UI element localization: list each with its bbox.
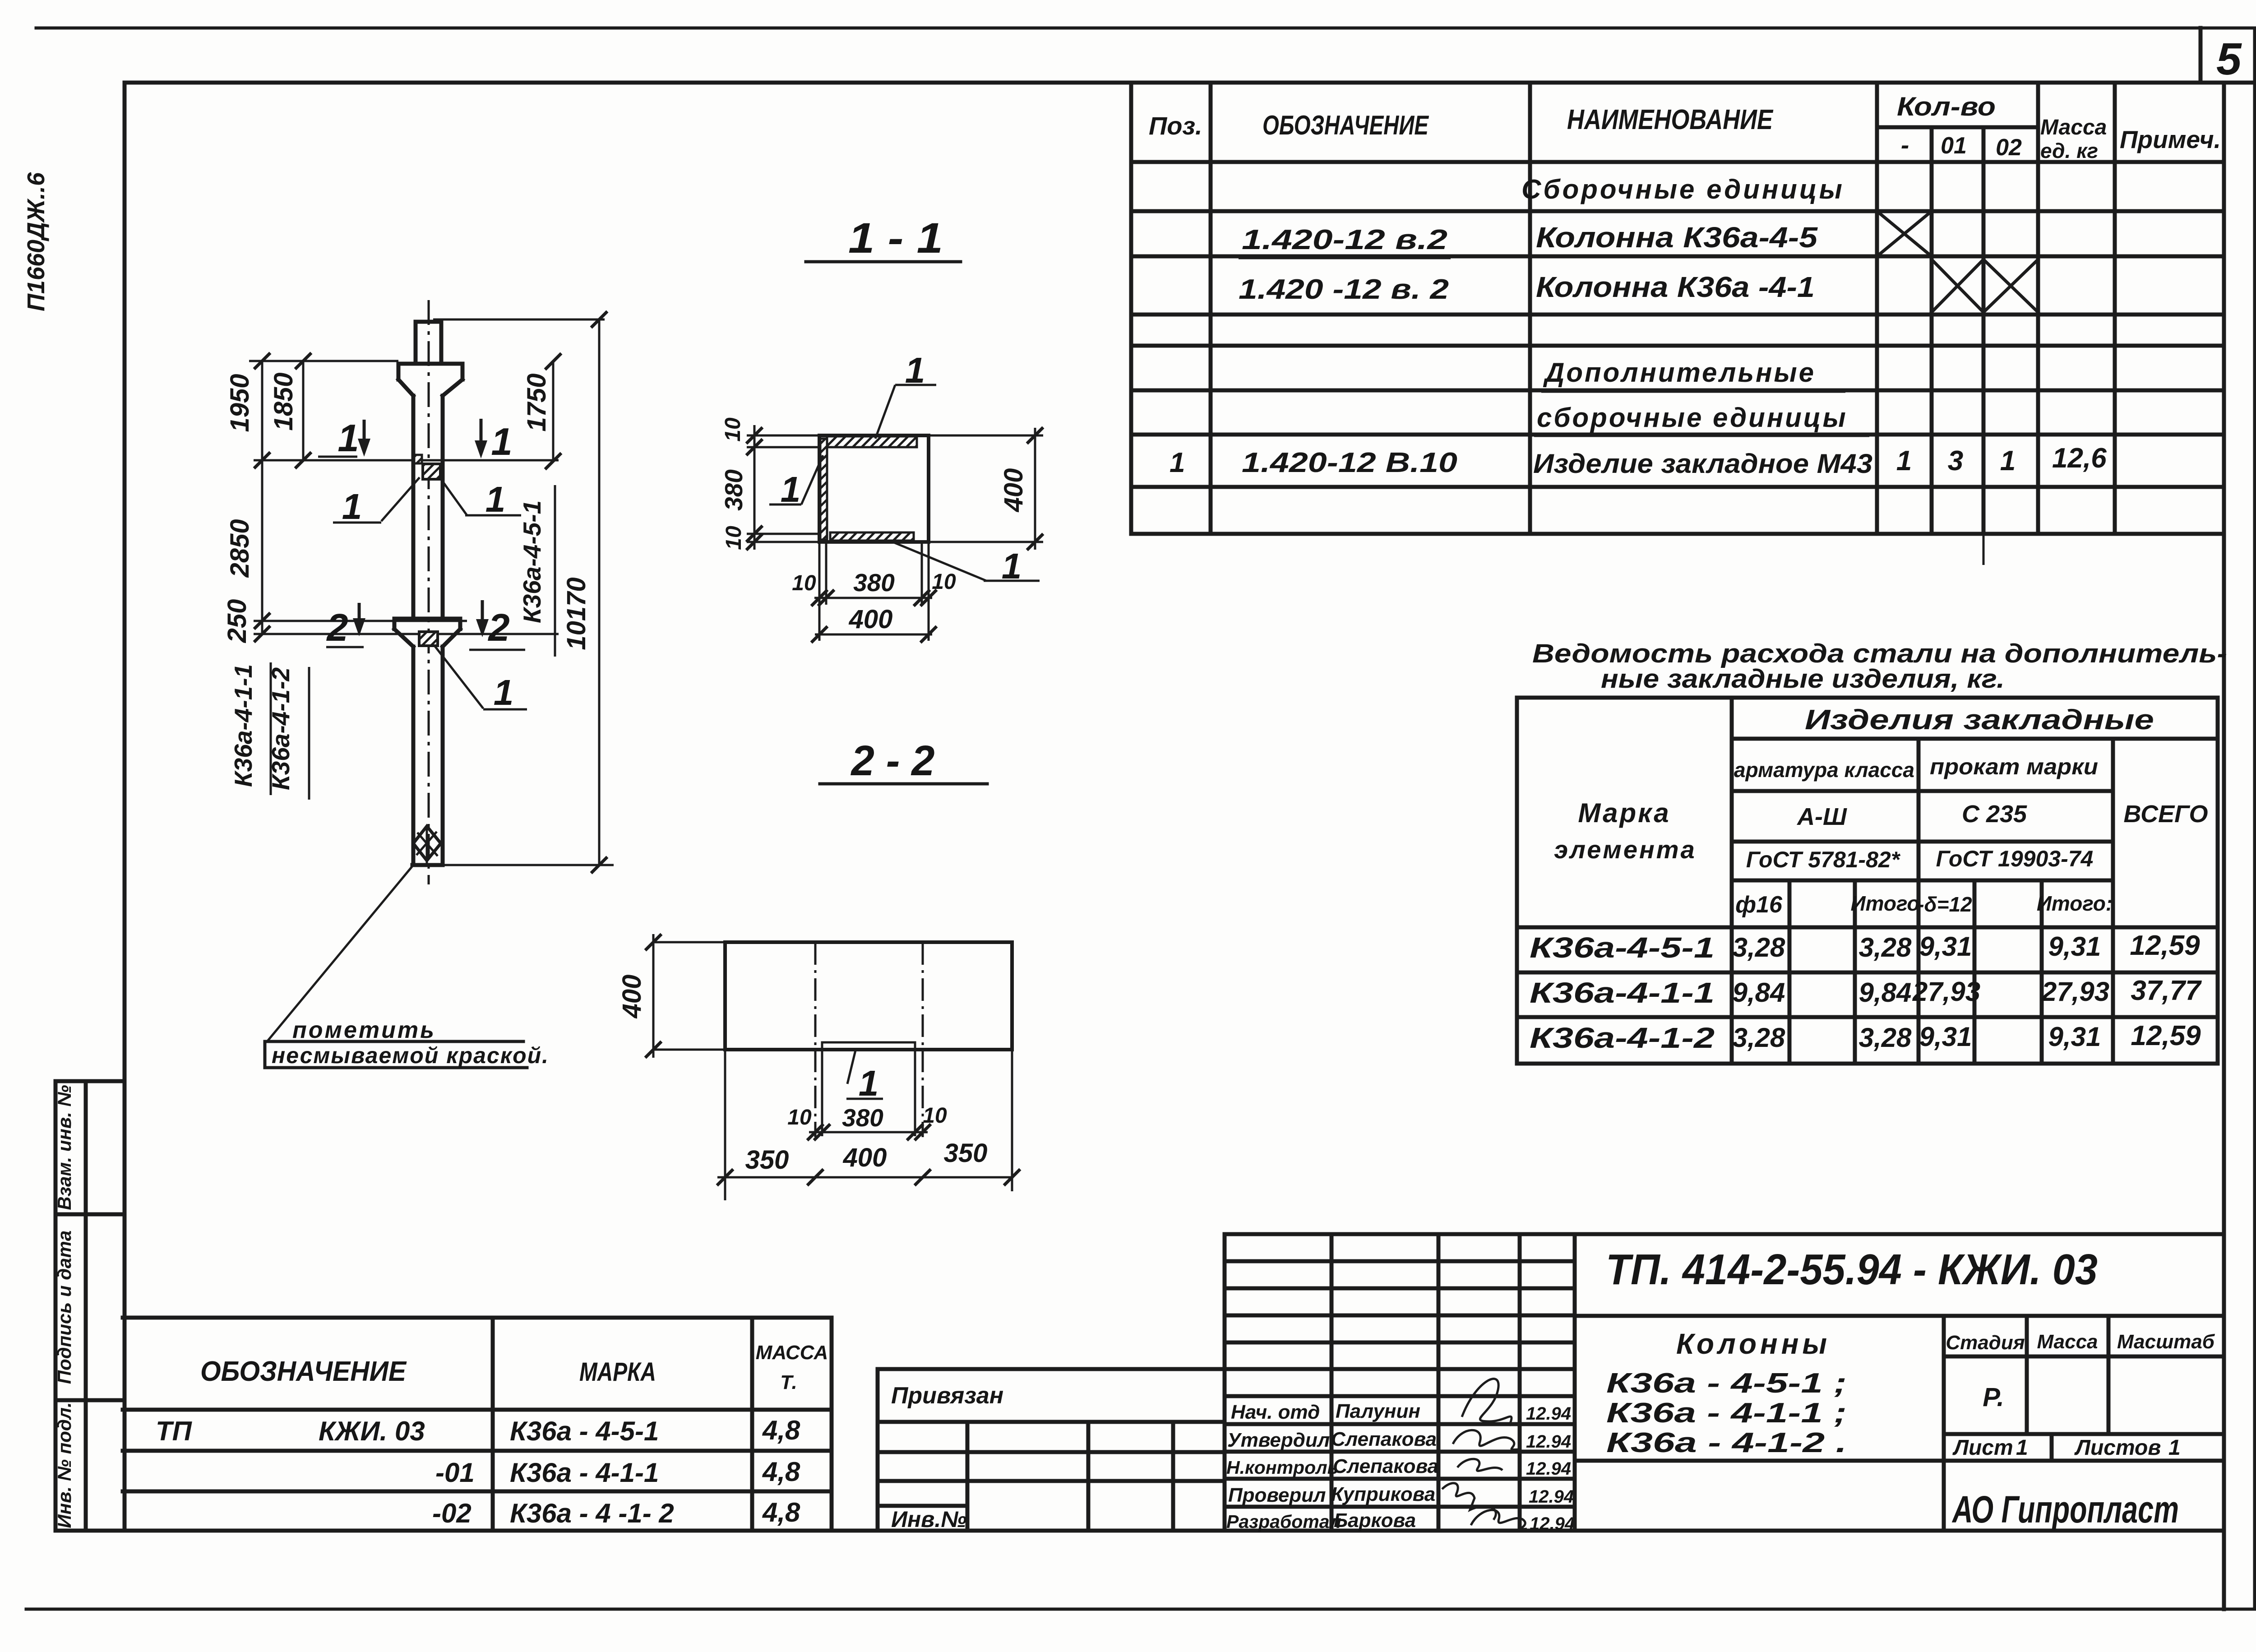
embedded plate (upper joint) (423, 464, 440, 479)
svg-text:1850: 1850 (269, 372, 298, 430)
svg-text:4,8: 4,8 (762, 1497, 800, 1527)
svg-text:сборочные единицы: сборочные единицы (1537, 403, 1848, 433)
svg-text:К36а - 4-1-1 ;: К36а - 4-1-1 ; (1606, 1397, 1847, 1429)
svg-text:Итого:: Итого: (2037, 892, 2113, 915)
svg-text:Колонна К36а -4-1: Колонна К36а -4-1 (1536, 271, 1815, 303)
joint extension line 1-1 level (254, 459, 559, 462)
embedded plate (822, 1042, 915, 1049)
svg-text:12.94: 12.94 (1529, 1487, 1574, 1507)
svg-text:Марка: Марка (1578, 798, 1670, 828)
svg-text:400: 400 (843, 1143, 887, 1172)
svg-text:1.420-12 в.2: 1.420-12 в.2 (1242, 224, 1447, 255)
paper edge top (36, 27, 2255, 30)
extension line bottom (441, 864, 614, 866)
svg-text:4,8: 4,8 (762, 1415, 800, 1445)
svg-text:пометить: пометить (292, 1017, 436, 1043)
svg-text:1: 1 (491, 421, 512, 463)
svg-text:10: 10 (923, 1104, 947, 1128)
svg-text:12.94: 12.94 (1526, 1459, 1571, 1479)
section 1-1 (720, 214, 1043, 643)
svg-text:элемента: элемента (1554, 835, 1696, 864)
leader 1 (846, 1050, 883, 1099)
paper edge bottom (26, 1608, 2255, 1611)
column outline (416, 322, 441, 364)
svg-text:1: 1 (2168, 1436, 2181, 1460)
svg-text:Баркова: Баркова (1334, 1509, 1416, 1532)
svg-text:10: 10 (721, 417, 745, 442)
svg-text:250: 250 (222, 599, 252, 643)
svg-text:9,31: 9,31 (1919, 931, 1972, 962)
svg-text:10170: 10170 (562, 577, 591, 650)
svg-text:-δ=12: -δ=12 (1917, 893, 1972, 916)
dim line 1950/2850/250 (261, 361, 264, 634)
svg-text:2850: 2850 (225, 519, 254, 578)
extension line top (249, 319, 605, 361)
column elevation drawing (222, 300, 614, 1068)
leader 1 upper-left (333, 477, 420, 523)
svg-text:1: 1 (1170, 447, 1185, 478)
note text (265, 1041, 527, 1068)
svg-text:Изделие закладное М43: Изделие закладное М43 (1533, 449, 1872, 479)
svg-text:37,77: 37,77 (2131, 975, 2202, 1006)
svg-text:01: 01 (1941, 133, 1967, 159)
svg-text:ед. кг: ед. кг (2040, 139, 2098, 162)
svg-text:КЖИ. 03: КЖИ. 03 (319, 1416, 425, 1446)
section 2-2 (617, 737, 1020, 1200)
svg-text:Т.: Т. (780, 1371, 797, 1393)
svg-text:Сборочные единицы: Сборочные единицы (1521, 174, 1845, 204)
svg-text:К36а-4-1-2: К36а-4-1-2 (1530, 1022, 1715, 1054)
svg-text:Изделия закладные: Изделия закладные (1805, 704, 2154, 736)
paint mark diamond at column foot (413, 826, 441, 861)
svg-text:1.420-12 В.10: 1.420-12 В.10 (1242, 447, 1457, 478)
square outline (819, 435, 929, 542)
svg-text:Привязан: Привязан (891, 1383, 1003, 1409)
svg-text:02: 02 (1996, 134, 2022, 161)
svg-text:К36а - 4-1-1: К36а - 4-1-1 (510, 1458, 659, 1488)
svg-text:9,84: 9,84 (1733, 977, 1785, 1008)
svg-text:Дополнительные: Дополнительные (1543, 357, 1816, 388)
svg-text:350: 350 (745, 1145, 789, 1175)
left embedded plate (820, 439, 827, 540)
leader to note (267, 865, 413, 1041)
svg-text:2 - 2: 2 - 2 (851, 737, 935, 785)
dim line 10170 (598, 319, 601, 865)
leader 1 upper-right (440, 478, 521, 515)
svg-text:1 - 1: 1 - 1 (848, 214, 943, 262)
svg-text:12,59: 12,59 (2130, 930, 2200, 961)
svg-text:НАИМЕНОВАНИЕ: НАИМЕНОВАНИЕ (1567, 104, 1773, 135)
svg-text:1: 1 (494, 672, 514, 713)
svg-text:Р.: Р. (1983, 1383, 2004, 1412)
svg-text:Слепакова: Слепакова (1331, 1428, 1437, 1450)
svg-text:9,31: 9,31 (2048, 1022, 2101, 1052)
svg-text:10: 10 (792, 571, 816, 595)
svg-text:3,28: 3,28 (1859, 932, 1912, 963)
leader 1 middle (435, 646, 527, 709)
svg-text:2: 2 (487, 606, 509, 649)
svg-text:МАССА: МАССА (756, 1342, 828, 1364)
svg-text:К36а-4-1-1: К36а-4-1-1 (229, 664, 257, 787)
svg-text:10: 10 (722, 526, 746, 550)
svg-text:4,8: 4,8 (762, 1457, 800, 1487)
svg-text:К36а - 4 -1- 2: К36а - 4 -1- 2 (510, 1498, 674, 1528)
svg-text:-01: -01 (435, 1458, 475, 1488)
svg-text:ТП. 414-2-55.94 - КЖИ. 03: ТП. 414-2-55.94 - КЖИ. 03 (1606, 1245, 2098, 1294)
svg-text:Масса: Масса (2040, 116, 2107, 139)
svg-text:Слепакова: Слепакова (1333, 1455, 1438, 1477)
svg-text:АО Гипропласт: АО Гипропласт (1952, 1488, 2179, 1531)
svg-text:П1660ДЖ..6: П1660ДЖ..6 (23, 172, 50, 311)
svg-text:Кол-во: Кол-во (1897, 92, 1996, 121)
svg-text:К36а-4-1-2: К36а-4-1-2 (267, 667, 295, 790)
dim line 1750 (552, 361, 555, 461)
svg-text:ТП: ТП (156, 1416, 193, 1446)
svg-text:ОБОЗНАЧЕНИЕ: ОБОЗНАЧЕНИЕ (1262, 110, 1429, 140)
svg-text:ные закладные изделия, кг.: ные закладные изделия, кг. (1601, 664, 2005, 694)
svg-text:9,31: 9,31 (2048, 931, 2101, 962)
svg-text:К36а - 4-5-1: К36а - 4-5-1 (510, 1416, 659, 1446)
svg-text:350: 350 (944, 1138, 988, 1168)
svg-text:А-Ш: А-Ш (1796, 803, 1847, 830)
bottom dims 10/380/10 (819, 542, 929, 641)
svg-text:несмываемой краской.: несмываемой краской. (272, 1043, 549, 1068)
svg-text:Поз.: Поз. (1149, 111, 1202, 140)
svg-text:ГоСТ 19903-74: ГоСТ 19903-74 (1936, 846, 2094, 871)
svg-text:Инв.№: Инв.№ (891, 1507, 967, 1532)
svg-text:3,28: 3,28 (1733, 1023, 1785, 1053)
svg-text:12.94: 12.94 (1526, 1432, 1571, 1452)
left dims 10/380/10 (747, 435, 820, 542)
svg-text:Палунин: Палунин (1336, 1400, 1420, 1422)
svg-text:1: 1 (342, 486, 362, 527)
svg-text:Нач. отд: Нач. отд (1231, 1401, 1320, 1423)
right dim 400 (929, 435, 1043, 542)
svg-text:Колонны: Колонны (1676, 1328, 1831, 1360)
svg-text:Утвердил: Утвердил (1227, 1429, 1330, 1451)
svg-text:27,93: 27,93 (1912, 976, 1980, 1007)
extension lines 2-2 level (254, 621, 559, 634)
title block: right part (1575, 1234, 2224, 1531)
svg-text:ГоСТ 5781-82*: ГоСТ 5781-82* (1746, 847, 1901, 872)
svg-text:12,6: 12,6 (2052, 443, 2107, 474)
svg-text:1: 1 (2000, 445, 2016, 477)
centerline (428, 300, 430, 884)
svg-text:9,31: 9,31 (1919, 1022, 1972, 1052)
svg-text:К36а - 4-1-2 .: К36а - 4-1-2 . (1606, 1427, 1847, 1458)
svg-text:3,28: 3,28 (1733, 932, 1785, 963)
svg-text:К36а - 4-5-1 ;: К36а - 4-5-1 ; (1606, 1368, 1847, 1399)
svg-text:5: 5 (2216, 34, 2242, 84)
svg-text:9,84: 9,84 (1859, 977, 1912, 1008)
left dim 400 (653, 942, 725, 1050)
svg-text:ф16: ф16 (1735, 892, 1783, 918)
svg-text:Подпись и дата: Подпись и дата (54, 1231, 75, 1384)
top embedded plate (827, 436, 917, 447)
svg-text:С 235: С 235 (1962, 801, 2027, 828)
steel consumption table (1517, 698, 2218, 1064)
svg-text:Проверил: Проверил (1228, 1484, 1326, 1506)
svg-text:380: 380 (853, 569, 895, 597)
svg-text:Взам. инв. №: Взам. инв. № (54, 1085, 75, 1210)
svg-text:10: 10 (787, 1106, 812, 1129)
svg-text:арматура класса: арматура класса (1734, 758, 1914, 782)
svg-text:Стадия: Стадия (1946, 1332, 2025, 1354)
svg-text:1950: 1950 (225, 374, 254, 432)
svg-text:Примеч.: Примеч. (2120, 125, 2221, 153)
signatures (1462, 1379, 1512, 1426)
svg-text:ОБОЗНАЧЕНИЕ: ОБОЗНАЧЕНИЕ (200, 1356, 407, 1387)
svg-text:Разработал: Разработал (1226, 1511, 1341, 1532)
svg-text:1.420 -12 в. 2: 1.420 -12 в. 2 (1239, 274, 1449, 305)
svg-text:10: 10 (932, 570, 956, 594)
svg-text:1: 1 (859, 1063, 879, 1103)
svg-text:400: 400 (849, 605, 893, 634)
svg-text:-: - (1901, 131, 1909, 159)
extension lines below (822, 1051, 915, 1136)
svg-text:Листов: Листов (2074, 1436, 2161, 1460)
svg-text:Инв. № подл.: Инв. № подл. (54, 1402, 75, 1528)
svg-text:12,59: 12,59 (2131, 1020, 2201, 1051)
svg-text:Лист: Лист (1952, 1436, 2013, 1460)
left stamp strip (55, 1081, 125, 1531)
bottom dim 400 (815, 634, 932, 636)
svg-text:Итого: Итого (1851, 892, 1920, 915)
svg-text:380: 380 (720, 469, 748, 511)
svg-text:27,93: 27,93 (2041, 976, 2109, 1007)
bottom dim 350/400/350 (725, 1050, 1012, 1200)
bottom embedded plate (830, 532, 914, 541)
svg-text:1: 1 (337, 417, 359, 460)
svg-text:2: 2 (326, 606, 348, 649)
svg-text:12.94: 12.94 (1530, 1514, 1575, 1534)
sheet number box "5" (2201, 28, 2255, 83)
svg-text:1: 1 (1896, 445, 1912, 477)
svg-text:Н.контроль: Н.контроль (1226, 1457, 1338, 1478)
title block: signature table (1225, 1234, 1575, 1534)
svg-text:прокат марки: прокат марки (1930, 754, 2098, 779)
svg-text:1: 1 (2016, 1436, 2028, 1460)
svg-text:Масса: Масса (2037, 1331, 2098, 1353)
svg-text:400: 400 (999, 468, 1028, 513)
title block: privyazan area (878, 1369, 1225, 1532)
svg-text:МАРКА: МАРКА (579, 1357, 656, 1387)
svg-text:-02: -02 (432, 1498, 472, 1528)
svg-text:К36а-4-1-1: К36а-4-1-1 (1530, 976, 1715, 1009)
parts list table (top right) (1131, 83, 2224, 565)
bottom-left marks table (123, 1318, 832, 1531)
svg-text:ВСЕГО: ВСЕГО (2123, 801, 2208, 828)
paper edge right (2253, 28, 2256, 1609)
svg-text:К36а-4-5-1: К36а-4-5-1 (518, 500, 546, 623)
dim 10/380/10 (809, 1131, 928, 1134)
svg-text:Масштаб: Масштаб (2117, 1331, 2215, 1353)
svg-text:380: 380 (842, 1104, 883, 1132)
svg-text:1: 1 (485, 479, 506, 519)
embedded plate (middle console) (419, 632, 438, 646)
svg-text:К36а-4-5-1: К36а-4-5-1 (1530, 931, 1715, 964)
dim line 1850 (302, 361, 305, 460)
svg-text:12.94: 12.94 (1526, 1404, 1571, 1424)
svg-text:Куприкова: Куприкова (1331, 1483, 1435, 1505)
rectangle outline (725, 942, 1012, 1050)
dash-dot verticals (815, 942, 923, 1050)
svg-text:1750: 1750 (522, 373, 551, 431)
svg-text:3: 3 (1948, 445, 1963, 477)
svg-text:3,28: 3,28 (1859, 1023, 1912, 1053)
svg-text:Колонна К36а-4-5: Колонна К36а-4-5 (1536, 221, 1818, 254)
svg-text:400: 400 (617, 975, 647, 1019)
